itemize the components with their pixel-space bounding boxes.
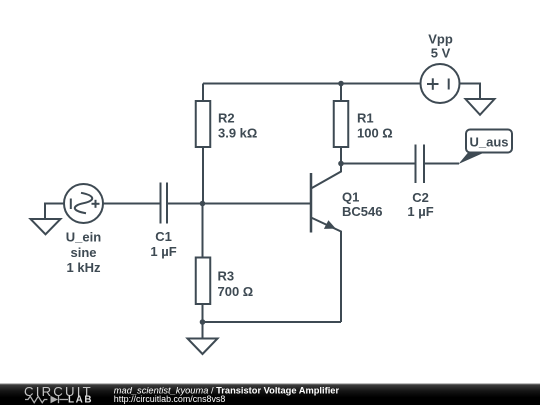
svg-text:C1: C1 <box>155 229 172 244</box>
svg-text:Q1: Q1 <box>342 189 359 204</box>
svg-text:U_ein: U_ein <box>66 230 101 245</box>
svg-text:5 V: 5 V <box>431 46 451 61</box>
svg-text:sine: sine <box>70 245 96 260</box>
svg-text:1 µF: 1 µF <box>407 204 433 219</box>
svg-text:R1: R1 <box>357 110 374 125</box>
svg-text:1 kHz: 1 kHz <box>67 260 101 275</box>
svg-text:U_aus: U_aus <box>469 135 508 150</box>
svg-text:1 µF: 1 µF <box>150 244 176 259</box>
svg-text:700 Ω: 700 Ω <box>218 284 254 299</box>
svg-text:R3: R3 <box>218 269 235 284</box>
svg-text:100 Ω: 100 Ω <box>357 125 393 140</box>
svg-text:BC546: BC546 <box>342 204 382 219</box>
svg-text:Vpp: Vpp <box>428 32 453 47</box>
svg-text:LAB: LAB <box>68 395 93 405</box>
svg-text:C2: C2 <box>412 190 429 205</box>
svg-text:R2: R2 <box>218 110 235 125</box>
svg-text:3.9 kΩ: 3.9 kΩ <box>218 125 257 140</box>
svg-text:http://circuitlab.com/cns8vs8: http://circuitlab.com/cns8vs8 <box>114 394 226 404</box>
